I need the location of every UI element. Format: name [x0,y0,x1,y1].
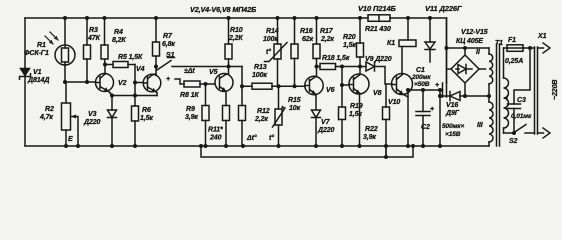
svg-text:500мк×: 500мк× [442,123,464,130]
transformer T1 winding II [489,48,493,96]
svg-text:V2: V2 [118,80,127,87]
svg-text:47К: 47К [87,35,101,42]
resistor R3 [84,18,91,82]
wire lower auxiliary rail [201,146,413,157]
resistor R18 [317,64,361,70]
svg-text:ФСК-Г1: ФСК-Г1 [24,50,49,57]
connector X1 pin 1 arrow [538,43,551,53]
resistor R20 [357,18,364,67]
resistor R5 [105,62,135,68]
svg-text:R18 1,5к: R18 1,5к [322,55,350,62]
svg-text:R3: R3 [89,27,98,34]
transistor V2 [96,65,114,96]
diode V11 [425,18,435,62]
svg-text:V1: V1 [33,69,42,76]
diode V9 [360,62,392,84]
fuse F1 [504,45,535,52]
svg-text:t°: t° [269,134,274,142]
svg-text:R1: R1 [37,42,46,49]
svg-text:C3: C3 [517,97,526,104]
svg-text:R20: R20 [343,34,356,41]
svg-text:10к: 10к [289,105,301,112]
svg-text:0,01мк: 0,01мк [511,113,532,120]
resistor R17 [313,18,320,77]
resistor R11 [223,106,230,147]
svg-text:R11*: R11* [208,127,223,134]
svg-text:S2: S2 [509,138,518,145]
capacitor C1 [408,18,447,97]
resistor R22 [383,85,390,158]
svg-text:R7: R7 [163,33,173,40]
thermistor R14 [265,18,288,86]
svg-text:Δt°: Δt° [246,134,257,142]
wire V10 emitter to rail [407,90,409,146]
variable resistor R15 [273,86,286,146]
wire V8 collector [359,67,361,75]
svg-text:V5: V5 [209,69,218,76]
wire left edge [24,18,26,146]
wire V6 base [279,85,306,87]
svg-text:R15: R15 [288,97,301,104]
svg-text:+: + [435,82,439,89]
resistor R6 [132,65,139,147]
svg-text:R10: R10 [230,27,243,34]
transistor V4 [143,74,161,96]
svg-text:V12-V15: V12-V15 [461,29,488,36]
wire V5 collector to R12 [229,66,243,68]
resistor R12 [239,67,246,147]
svg-text:62к: 62к [302,36,314,43]
svg-text:R17: R17 [320,28,334,35]
svg-text:±Δt: ±Δt [184,68,195,75]
switch S1 [157,58,229,71]
wire V8 base branch [342,67,349,86]
svg-text:1,5к: 1,5к [349,111,362,118]
capacitor C3 [508,48,531,133]
svg-text:3,9к: 3,9к [185,114,198,121]
svg-text:100к: 100к [263,36,278,43]
svg-text:Т1: Т1 [495,40,503,47]
resistor R4 [101,18,108,65]
svg-text:V7: V7 [321,119,331,126]
svg-text:S1: S1 [166,52,175,59]
svg-text:1,5к: 1,5к [140,115,153,122]
svg-text:2,2к: 2,2к [254,116,268,123]
svg-text:V6: V6 [326,87,335,94]
svg-text:6,8к: 6,8к [162,41,175,48]
transistor V10 [392,47,413,98]
svg-text:Д220: Д220 [83,119,101,126]
diode V7 [312,96,321,146]
svg-text:V4: V4 [136,66,145,73]
svg-text:R12: R12 [257,108,270,115]
resistor R7 [153,18,160,75]
svg-text:200мк: 200мк [411,74,431,81]
svg-text:R8 1К: R8 1К [180,92,199,99]
svg-text:R9: R9 [186,106,195,113]
switch S2 [504,125,535,134]
relay K1 [399,18,416,47]
zener diode V1 [20,69,31,80]
svg-text:R5 1,5К: R5 1,5К [118,54,143,61]
svg-text:V11 Д226Г: V11 Д226Г [425,4,462,13]
svg-text:F1: F1 [508,37,516,44]
svg-text:×15В: ×15В [445,131,461,138]
svg-text:V16: V16 [446,102,458,109]
connector X1 pin 2 arrow [538,128,551,138]
svg-text:×50В: ×50В [414,81,430,88]
bridge rectifier V12-V15 [447,48,490,96]
resistor R19 [339,85,346,146]
svg-text:V9 Д220: V9 Д220 [365,56,392,63]
svg-text:C1: C1 [416,67,425,74]
diode V3 [108,96,117,147]
svg-text:КЦ 405Е: КЦ 405Е [456,38,483,45]
svg-text:0,25А: 0,25А [505,58,523,65]
svg-text:R6: R6 [142,107,151,114]
transformer T1 winding III [489,96,493,146]
svg-text:R14: R14 [266,28,279,35]
svg-text:Д9Г: Д9Г [445,110,460,117]
diode V16 [440,90,489,146]
wire V2 base [65,81,96,83]
svg-text:240: 240 [209,135,222,142]
resistor R9 [202,84,209,146]
resistor R8 [175,79,215,87]
svg-text:Д220: Д220 [317,127,335,134]
transformer T1 winding I [504,48,509,133]
resistor R16 [291,18,298,86]
svg-text:К1: К1 [387,40,395,47]
transistor V5 [215,74,233,106]
resistor R21 [368,15,390,21]
svg-text:~220В: ~220В [552,80,559,100]
svg-text:R4: R4 [114,29,123,36]
svg-text:R2: R2 [45,106,54,113]
svg-text:2,2К: 2,2К [228,35,243,42]
transistor V8 [349,74,369,146]
photoresistor R1 [45,18,75,82]
svg-text:+: + [166,76,170,83]
svg-text:Е: Е [68,136,73,143]
svg-text:R22: R22 [365,126,378,133]
svg-text:R16: R16 [300,28,313,35]
svg-text:R19: R19 [350,103,363,110]
svg-text:1,5к: 1,5к [343,42,356,49]
connector X1 body [535,47,538,134]
svg-text:100к: 100к [252,72,267,79]
svg-text:C2: C2 [421,124,430,131]
wire V2 emitter to V4 [111,95,157,97]
svg-text:V10: V10 [388,99,400,106]
svg-text:V3: V3 [88,111,97,118]
svg-text:2,2к: 2,2к [320,36,334,43]
svg-text:8,2К: 8,2К [112,37,126,44]
wire V4 base [135,82,144,84]
svg-text:3,9к: 3,9к [363,134,376,141]
wire top rail [25,18,447,83]
svg-text:t°: t° [266,48,271,56]
svg-text:4,7к: 4,7к [39,114,53,121]
transistor V6 [305,76,323,96]
svg-text:V2,V4-V6,V8 МП42Б: V2,V4-V6,V8 МП42Б [190,5,256,14]
svg-text:R13: R13 [254,64,267,71]
capacitor C2 [416,90,430,146]
svg-text:Х1: Х1 [537,33,547,40]
resistor R10 [225,18,232,74]
svg-text:Д814Д: Д814Д [27,77,49,84]
resistor R13 [242,83,279,89]
svg-text:V8: V8 [373,90,382,97]
svg-text:+: + [430,106,434,113]
svg-text:V10 П214Б: V10 П214Б [358,4,397,13]
resistor R2 (potentiometer) [62,82,79,146]
svg-text:R21 430: R21 430 [365,26,391,33]
wire bottom rail [25,145,489,147]
transformer T1 core [497,44,500,146]
